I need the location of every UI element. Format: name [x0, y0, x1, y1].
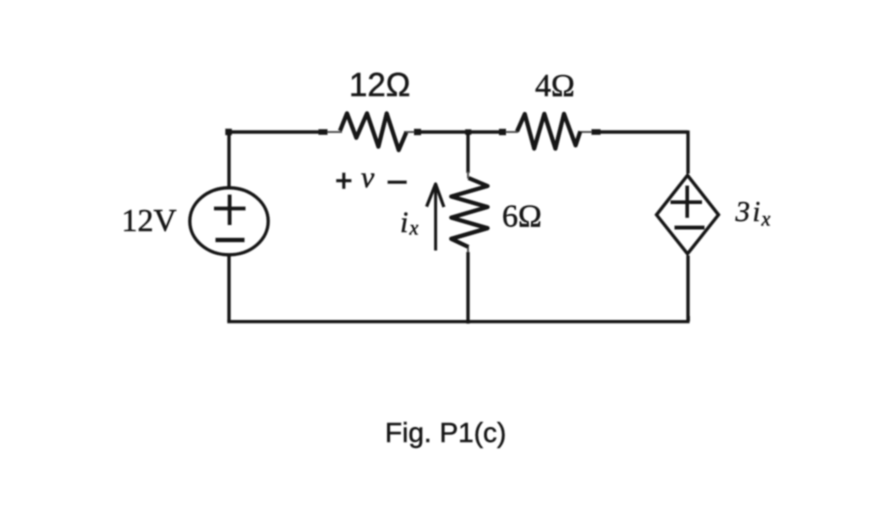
svg-text:12V: 12V — [122, 202, 177, 238]
svg-text:i: i — [400, 206, 408, 239]
svg-text:x: x — [409, 218, 419, 240]
svg-text:v: v — [361, 161, 375, 194]
svg-text:12Ω: 12Ω — [349, 66, 410, 103]
svg-text:4Ω: 4Ω — [535, 67, 575, 103]
svg-text:Fig. P1(c): Fig. P1(c) — [385, 417, 506, 448]
svg-text:6Ω: 6Ω — [502, 198, 542, 234]
svg-text:x: x — [761, 209, 771, 231]
svg-text:3: 3 — [735, 196, 751, 228]
svg-text:i: i — [753, 197, 761, 228]
